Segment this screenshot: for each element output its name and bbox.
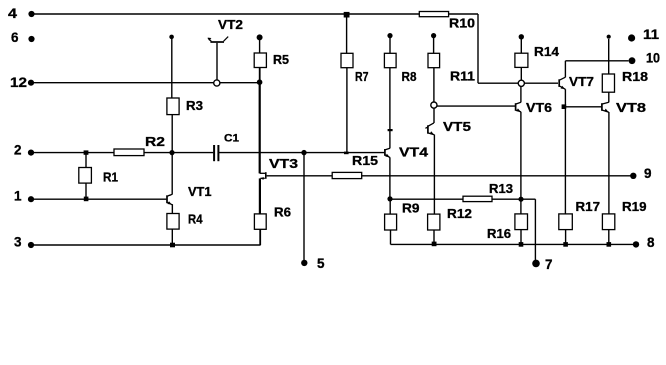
wire R7 top lead: [346, 17, 348, 53]
svg-text:6: 6: [11, 30, 19, 45]
pin 4 terminal: [28, 11, 34, 17]
svg-text:2: 2: [14, 143, 22, 158]
node junction R5 bottom on net12: [257, 79, 263, 85]
wire R11 top lead: [433, 38, 435, 55]
wire net2 rail right of C1 to VT4 base: [219, 152, 384, 154]
wire R3 top lead: [171, 39, 173, 98]
wire net8 bottom rail: [391, 243, 637, 245]
wire net2 rail left of C1: [34, 152, 213, 154]
wire net4 top rail: [35, 13, 420, 15]
wire R4 bottom lead: [171, 229, 173, 245]
transistor VT1: [167, 194, 172, 205]
svg-text:9: 9: [644, 166, 652, 181]
pin 11 terminal: [628, 34, 635, 41]
wire R1 top lead: [85, 153, 87, 168]
svg-text:VT4: VT4: [399, 145, 429, 160]
resistor R10: [419, 12, 448, 17]
pin 9 terminal: [630, 173, 636, 179]
svg-text:R15: R15: [352, 153, 378, 168]
wire VT7 collector riser: [564, 61, 566, 78]
svg-text:VT6: VT6: [526, 100, 552, 115]
wire R17 bottom lead: [565, 230, 567, 245]
pin 1 terminal: [28, 196, 34, 202]
svg-text:R3: R3: [186, 98, 203, 113]
node junction R7 landing on net2: [344, 152, 349, 155]
svg-text:R14: R14: [534, 44, 560, 59]
svg-text:3: 3: [14, 235, 22, 250]
svg-text:R16: R16: [487, 226, 511, 241]
wire net1 to VT1 base: [34, 198, 166, 200]
wire net4 after R10: [449, 13, 479, 15]
wire VT8 base line: [565, 106, 601, 108]
node junction R11 / VT5 collector / VT6 base: [431, 102, 437, 108]
node tick on R8 lead: [388, 129, 393, 131]
svg-text:R11: R11: [450, 69, 475, 84]
wire R1 bottom lead: [85, 183, 87, 199]
wire net12 rail: [34, 82, 260, 84]
wire VT7 emitter drop to R17: [564, 89, 566, 214]
node junction VT7 emitter / VT8 base: [562, 104, 567, 109]
svg-text:VT5: VT5: [443, 119, 471, 134]
svg-text:R18: R18: [622, 69, 648, 84]
transistor VT6: [516, 102, 521, 112]
pin 3 terminal: [28, 242, 34, 248]
pin 8 terminal: [633, 241, 639, 247]
svg-text:5: 5: [317, 256, 325, 271]
pin 5 terminal: [301, 260, 307, 266]
svg-text:R10: R10: [449, 16, 475, 31]
resistor R4: [167, 214, 179, 230]
wire R14 top lead: [520, 39, 522, 53]
wire net9 long rail via R15: [267, 175, 633, 177]
svg-text:VT8: VT8: [616, 100, 646, 115]
node junction R13 / R16: [518, 197, 523, 202]
wire R18 bottom lead: [608, 92, 610, 102]
svg-text:1: 1: [14, 189, 22, 204]
resistor R19: [602, 214, 614, 230]
node junction R2-R3 on net2: [169, 150, 174, 155]
node junction R4 on net3: [170, 243, 175, 248]
wire R18 top lead: [608, 39, 610, 74]
node junction R1 on net1: [84, 197, 89, 202]
wire R8 top lead: [389, 38, 391, 53]
resistor R18: [602, 74, 614, 92]
svg-text:R2: R2: [145, 134, 165, 149]
svg-text:R4: R4: [188, 212, 203, 227]
svg-text:R12: R12: [447, 206, 472, 221]
wire R6 bottom lead: [259, 229, 261, 245]
resistor R14: [515, 53, 528, 67]
wire net4 drop to VT7 base level: [477, 14, 479, 83]
node R3 top terminal: [169, 35, 174, 40]
svg-text:R13: R13: [489, 181, 513, 196]
svg-text:7: 7: [545, 257, 553, 272]
resistor R12: [428, 214, 440, 230]
svg-text:R1: R1: [103, 170, 118, 185]
pin 6 terminal: [28, 36, 34, 42]
resistor R6: [254, 214, 266, 229]
wire VT7 base line: [478, 82, 558, 84]
resistor R17: [559, 214, 573, 230]
resistor R3: [167, 98, 179, 115]
svg-text:R5: R5: [273, 52, 289, 67]
pin 10 terminal: [629, 57, 636, 64]
transistor VT4: [385, 148, 390, 157]
svg-text:R6: R6: [274, 205, 291, 220]
wire drop to pin 5: [303, 153, 305, 263]
transistor VT5: [425, 123, 434, 135]
resistor R15: [332, 172, 362, 178]
wire VT3 collector drop: [259, 83, 261, 174]
resistor R9: [385, 214, 397, 230]
wire net3 ground rail: [34, 244, 261, 246]
svg-text:R9: R9: [402, 201, 420, 216]
wire VT6 collector lead: [520, 83, 522, 102]
node junction R16 on net8: [519, 242, 524, 247]
svg-text:VT3: VT3: [269, 156, 298, 171]
node junction pin5 drop on net2: [301, 150, 306, 155]
wire R3 bottom to VT1 collector: [171, 114, 173, 194]
wire VT5 emitter drop to R12: [433, 135, 435, 215]
node junction VT2 base on net12: [214, 80, 220, 86]
svg-text:R7: R7: [355, 69, 369, 84]
node R18 top terminal: [607, 35, 611, 39]
wire VT8 emitter drop to R19: [608, 112, 610, 214]
transistor VT8: [602, 102, 609, 112]
svg-text:VT7: VT7: [569, 74, 594, 89]
svg-text:8: 8: [647, 235, 655, 250]
wire R13 rail: [390, 198, 535, 200]
transistor VT2: [208, 37, 229, 83]
wire VT3 emitter drop to R6: [259, 178, 261, 214]
wire R5 top lead: [259, 40, 261, 53]
svg-text:VT2: VT2: [218, 17, 243, 32]
resistor R16: [515, 214, 528, 230]
node junction R1 top on net2: [84, 150, 89, 154]
svg-text:4: 4: [8, 6, 18, 21]
wire R9 bottom lead: [390, 230, 392, 245]
svg-text:VT1: VT1: [188, 184, 212, 199]
wire R11 bottom lead: [433, 68, 435, 102]
wire R7 bottom lead to net2: [346, 68, 348, 153]
node junction R12 on net8: [432, 242, 437, 247]
wire R8 bottom to VT4 collector: [389, 68, 391, 149]
resistor R2: [114, 149, 144, 156]
resistor R8: [384, 53, 396, 67]
svg-text:10: 10: [646, 51, 660, 66]
node junction VT4 emitter / R9 / R13: [387, 196, 392, 201]
wire R5 bottom lead: [259, 67, 261, 82]
node junction R19 on net8: [607, 242, 612, 247]
svg-text:12: 12: [10, 75, 27, 90]
node R8 top terminal: [387, 33, 392, 38]
svg-text:11: 11: [643, 27, 660, 42]
wire VT1 emitter to R4: [171, 204, 173, 214]
wire VT4 emitter drop: [389, 157, 391, 199]
node R11 top terminal: [431, 33, 436, 38]
pin 12 terminal: [28, 80, 34, 86]
wire VT6 base line: [437, 105, 515, 107]
resistor R1: [79, 168, 92, 184]
wire R12 bottom lead: [433, 230, 435, 245]
node R5 top terminal: [257, 34, 263, 40]
wire R9 top lead: [389, 199, 391, 214]
wire VT6 emitter drop to R16: [520, 112, 522, 214]
svg-text:C1: C1: [224, 133, 239, 145]
wire R14 bottom lead: [520, 67, 522, 80]
wire R19 bottom lead: [608, 230, 610, 245]
svg-text:R8: R8: [402, 69, 417, 84]
transistor VT7: [559, 77, 565, 89]
resistor R5: [254, 53, 266, 68]
node R14 top terminal: [519, 34, 524, 39]
wire drop to pin 7: [534, 199, 536, 263]
resistor R7: [341, 53, 353, 67]
svg-text:R19: R19: [622, 199, 647, 214]
node junction R17 on net8: [563, 242, 568, 247]
resistor R11: [428, 53, 440, 67]
svg-text:R17: R17: [576, 199, 601, 214]
capacitor C1: [214, 145, 218, 161]
transistor VT3: [260, 172, 266, 180]
pin 2 terminal: [28, 150, 34, 156]
node junction R14 / VT7 base / VT6 collector: [518, 80, 524, 86]
pin 7 terminal: [532, 260, 540, 268]
resistor R13: [463, 196, 492, 201]
node junction R7 on net4: [344, 12, 350, 18]
wire VT5 collector lead: [433, 108, 435, 123]
wire R16 bottom lead: [520, 230, 522, 245]
wire net10 rail: [565, 60, 628, 62]
